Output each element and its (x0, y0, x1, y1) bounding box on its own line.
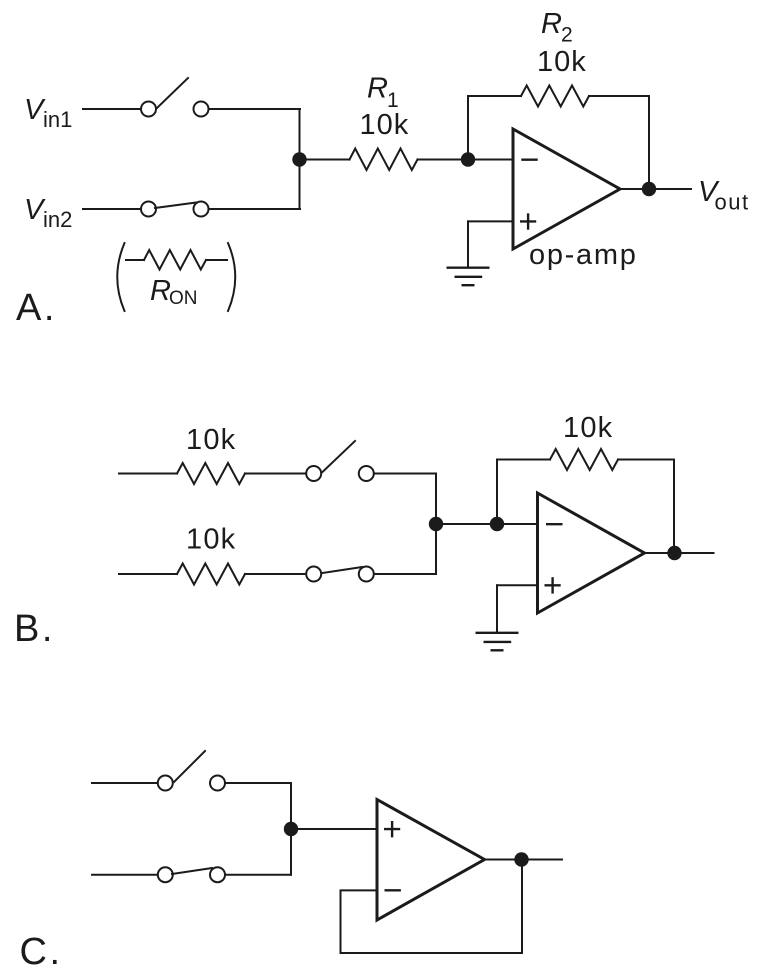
svg-text:R: R (367, 73, 388, 105)
svg-text:10k: 10k (360, 109, 410, 141)
svg-text:R: R (150, 275, 171, 307)
svg-text:in1: in1 (43, 107, 72, 132)
svg-text:op-amp: op-amp (529, 239, 638, 271)
svg-text:in2: in2 (43, 207, 72, 232)
svg-text:out: out (715, 190, 750, 215)
svg-text:2: 2 (561, 24, 573, 47)
svg-text:10k: 10k (186, 524, 236, 556)
svg-text:10k: 10k (563, 412, 613, 444)
svg-text:ON: ON (169, 288, 198, 309)
svg-text:A.: A. (16, 287, 57, 329)
svg-text:B.: B. (14, 608, 55, 650)
svg-text:10k: 10k (537, 46, 587, 78)
svg-text:C.: C. (20, 931, 63, 973)
svg-text:R: R (541, 8, 562, 40)
svg-text:10k: 10k (186, 424, 236, 456)
